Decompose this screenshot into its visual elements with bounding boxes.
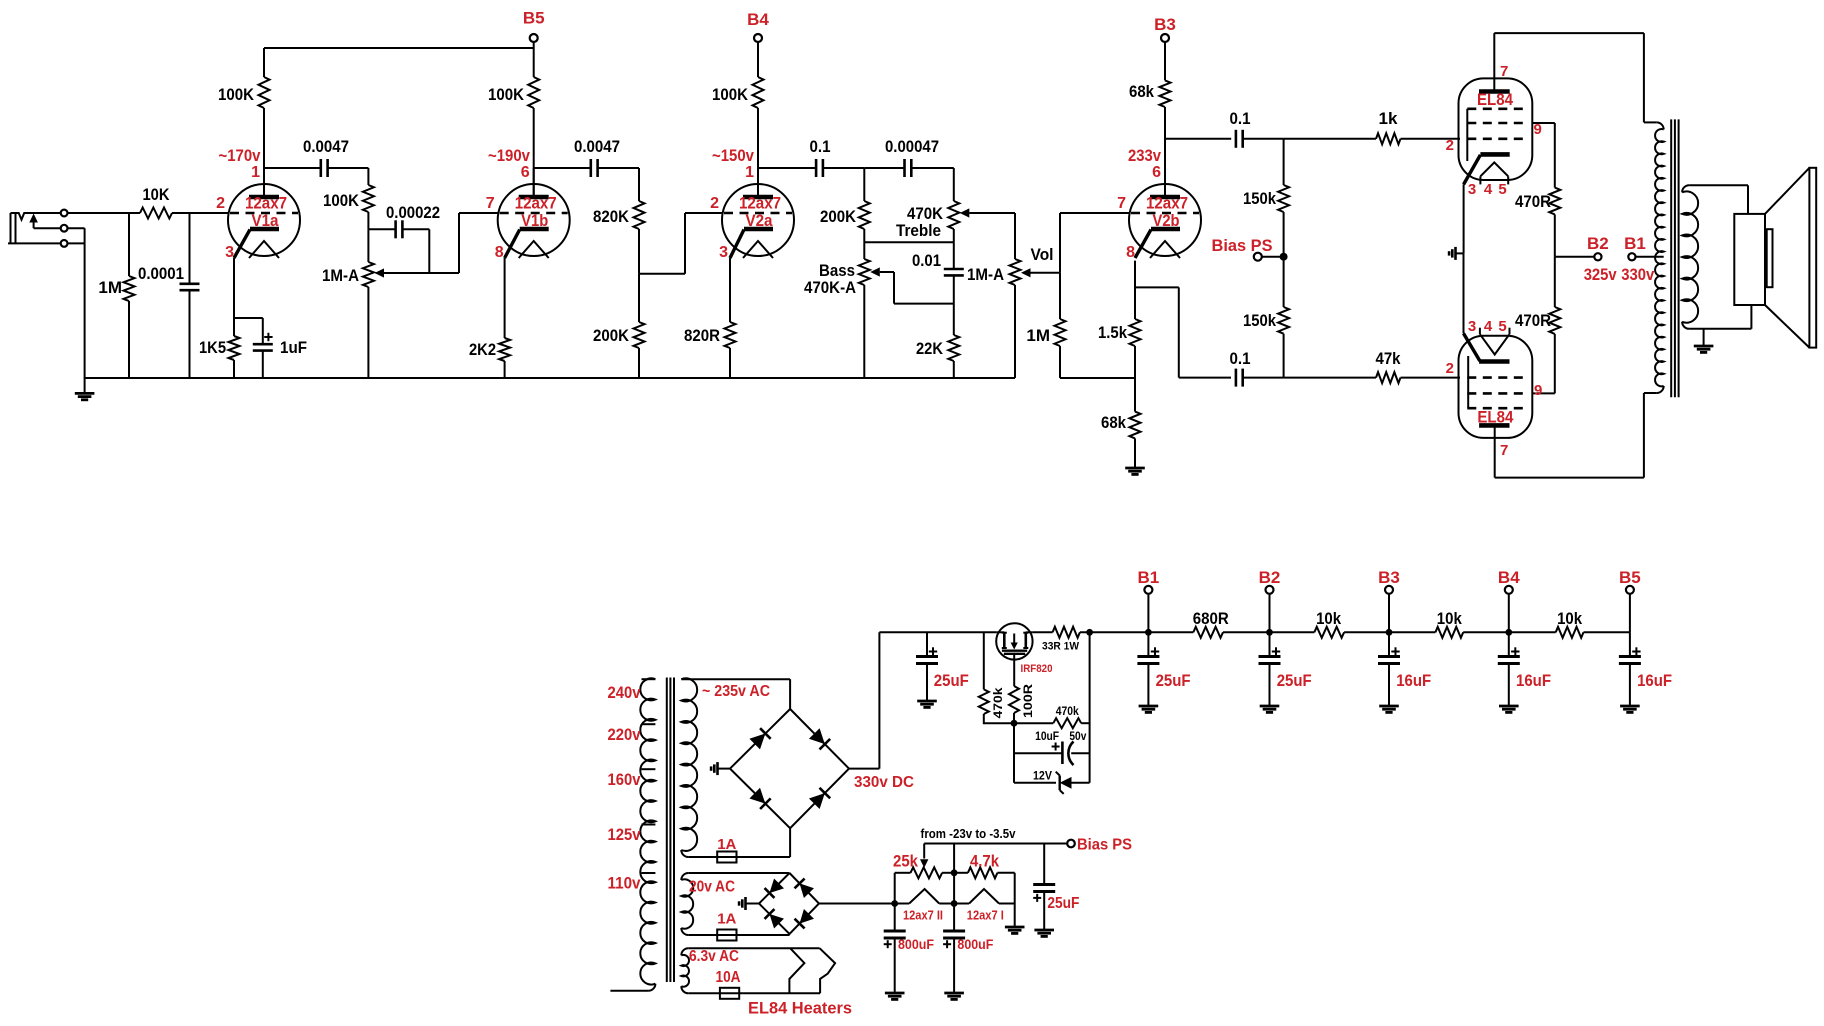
ground symbol V2b tail <box>1125 467 1145 470</box>
primary tap 160v <box>642 768 656 770</box>
resistor 4.7k bias <box>968 867 998 878</box>
svg-text:20v AC: 20v AC <box>689 879 735 896</box>
ground symbol bias bridge <box>746 903 760 905</box>
diode HT left-top <box>749 734 765 750</box>
primary tap 240v <box>642 678 656 680</box>
terminal B1 330v <box>1628 253 1635 260</box>
ground symbol 800uF left <box>885 992 905 995</box>
terminal B4 bottom <box>1505 586 1513 594</box>
junction B1 <box>1145 629 1152 636</box>
svg-text:1A: 1A <box>717 911 736 928</box>
svg-text:~ 235v AC: ~ 235v AC <box>702 683 770 700</box>
resistor 1.5k V2b cathode <box>1134 261 1136 319</box>
svg-text:22K: 22K <box>916 339 944 358</box>
potentiometer 1M-A gain <box>367 229 369 262</box>
svg-text:325v: 325v <box>1584 265 1617 284</box>
ground symbol raw cap <box>917 700 937 703</box>
svg-text:16uF: 16uF <box>1516 671 1551 690</box>
triode V1a 12ax7 <box>216 164 300 261</box>
svg-text:1M: 1M <box>1026 326 1050 345</box>
svg-text:4: 4 <box>1484 181 1493 198</box>
resistor 470R top screen <box>1554 123 1556 188</box>
terminal B4 <box>754 34 762 42</box>
bias secondary 20v AC <box>681 879 693 928</box>
svg-text:9: 9 <box>1534 382 1542 399</box>
svg-text:EL84: EL84 <box>1477 90 1513 109</box>
capacitor 16uF B3 <box>1388 632 1390 656</box>
capacitor 0.01 <box>953 242 955 269</box>
potentiometer 470K Treble <box>953 168 955 201</box>
primary tap 125v <box>642 824 656 826</box>
capacitor 25uF B1 <box>1147 632 1149 656</box>
zener 12V <box>1014 782 1056 784</box>
power transformer core <box>666 678 668 983</box>
resistor 100K interstage <box>367 168 369 185</box>
diode bias right-top <box>800 883 814 898</box>
diode bias bottom-left <box>769 914 783 928</box>
input jack J1 <box>10 213 12 243</box>
svg-text:7: 7 <box>1500 442 1508 459</box>
wire 20v top to bias bridge <box>688 872 789 874</box>
svg-text:1: 1 <box>745 164 754 181</box>
svg-text:2: 2 <box>710 195 719 212</box>
svg-text:~190v: ~190v <box>488 146 530 165</box>
svg-text:8: 8 <box>495 244 504 261</box>
svg-text:6: 6 <box>1152 164 1161 181</box>
HT secondary ~235v AC <box>681 678 697 851</box>
svg-text:12ax7: 12ax7 <box>1146 194 1188 213</box>
resistor 68k V2b tail <box>1134 378 1136 412</box>
wire bottom EL84 cathode to ground <box>1463 253 1465 333</box>
svg-text:3: 3 <box>1468 181 1476 198</box>
svg-text:2: 2 <box>1446 360 1454 377</box>
svg-text:220v: 220v <box>608 725 641 744</box>
wire secondary top to speaker <box>1689 184 1748 186</box>
junction gate node <box>1011 720 1018 727</box>
svg-text:200K: 200K <box>593 326 630 345</box>
svg-text:EL84 Heaters: EL84 Heaters <box>748 999 852 1018</box>
wire sleeve down to ground bus <box>84 243 86 378</box>
svg-text:B3: B3 <box>1378 568 1400 587</box>
svg-text:16uF: 16uF <box>1637 671 1672 690</box>
speaker <box>1734 214 1765 305</box>
svg-text:10k: 10k <box>1437 609 1462 628</box>
junction bias node <box>1280 253 1288 261</box>
heater secondary 6.3v AC <box>681 955 689 987</box>
svg-text:6.3v AC: 6.3v AC <box>689 948 739 965</box>
resistor 47k grid stopper bottom EL84 <box>1284 377 1376 379</box>
svg-text:3: 3 <box>1468 318 1476 335</box>
diode HT left-bottom <box>749 788 765 804</box>
wire jack ring to ground column <box>34 227 61 229</box>
wire top EL84 plate to OT <box>1494 32 1644 34</box>
capacitor 0.0001 input <box>189 213 191 284</box>
pentode EL84 top <box>1459 78 1533 180</box>
svg-text:50v: 50v <box>1069 731 1087 743</box>
resistor 680R <box>1148 631 1193 633</box>
svg-text:820R: 820R <box>684 326 720 345</box>
output transformer primary <box>1657 122 1664 129</box>
svg-text:330v DC: 330v DC <box>854 774 914 791</box>
fuse 1A HT <box>688 856 790 858</box>
diode bias top-left <box>769 879 783 893</box>
MOSFET IRF820 <box>996 623 1032 659</box>
jack ring contact <box>61 225 68 232</box>
wire mosfet to 33R <box>1033 631 1053 633</box>
svg-text:470k: 470k <box>991 687 1005 718</box>
svg-text:470k: 470k <box>1056 706 1080 718</box>
power transformer primary <box>640 678 655 984</box>
svg-text:1k: 1k <box>1379 109 1398 128</box>
terminal B1 bottom <box>1144 586 1152 594</box>
resistor 820K <box>638 168 640 201</box>
svg-text:0.1: 0.1 <box>1230 109 1251 128</box>
wire 200K to treble bottom <box>864 241 954 243</box>
ground symbol bias right <box>1005 926 1025 929</box>
wire top EL84 cathode to ground <box>1463 184 1465 253</box>
svg-text:B1: B1 <box>1624 234 1646 253</box>
svg-text:V2b: V2b <box>1153 211 1180 230</box>
svg-text:1.5k: 1.5k <box>1098 323 1127 342</box>
bass wiper arrow <box>870 267 880 276</box>
svg-text:110v: 110v <box>608 874 641 893</box>
svg-text:0.1: 0.1 <box>810 137 831 156</box>
svg-text:10k: 10k <box>1557 609 1582 628</box>
primary tap 220v <box>642 723 656 725</box>
svg-text:7: 7 <box>486 195 495 212</box>
svg-text:B3: B3 <box>1154 15 1176 34</box>
capacitor 10uF 50v gate <box>1013 723 1015 783</box>
svg-text:820K: 820K <box>593 207 630 226</box>
svg-text:12ax7 II: 12ax7 II <box>903 909 943 923</box>
junction bias raw mid <box>951 900 958 907</box>
svg-text:25uF: 25uF <box>1277 671 1312 690</box>
svg-text:7: 7 <box>1117 195 1126 212</box>
capacitor 25uF raw <box>926 632 928 656</box>
1M-A wiper arrow <box>375 268 385 277</box>
capacitor 16uF B4 <box>1508 632 1510 656</box>
resistor 2K2 V1b cathode <box>504 258 506 338</box>
triode V2b 12ax7 <box>1117 164 1201 261</box>
svg-text:0.0047: 0.0047 <box>574 137 620 156</box>
diode HT bottom-right <box>809 793 825 809</box>
fuse 10A heater <box>688 992 820 994</box>
resistor 10k B3-B4 <box>1389 631 1435 633</box>
svg-text:10uF: 10uF <box>1035 731 1059 743</box>
wire to V2a grid <box>639 273 685 275</box>
svg-text:12ax7: 12ax7 <box>245 194 287 213</box>
svg-text:125v: 125v <box>608 825 641 844</box>
resistor 10K grid stopper <box>140 208 172 219</box>
heater 12ax7 II <box>895 903 910 905</box>
svg-text:25uF: 25uF <box>1047 895 1079 912</box>
svg-text:68k: 68k <box>1101 413 1126 432</box>
svg-text:4.7k: 4.7k <box>970 852 999 871</box>
svg-text:100R: 100R <box>1021 684 1035 718</box>
jack tip contact <box>61 210 68 217</box>
junction bias raw left <box>891 900 898 907</box>
B5 supply bus wire <box>264 47 534 49</box>
terminal B3 bottom <box>1385 586 1393 594</box>
junction 25k/4.7k <box>951 869 958 876</box>
svg-text:1: 1 <box>251 164 260 181</box>
capacitor 800uF left <box>894 904 896 932</box>
25k wiper arrow <box>923 844 925 859</box>
ground symbol EL84 cathodes <box>1456 252 1464 254</box>
wire jack tip to grid <box>68 212 140 214</box>
svg-text:233v: 233v <box>1128 146 1161 165</box>
svg-text:Treble: Treble <box>896 221 941 240</box>
wire bass wiper to 0.01 <box>893 272 895 304</box>
EL84 heaters connector arrow <box>789 948 804 993</box>
svg-text:160v: 160v <box>608 770 641 789</box>
capacitor 25uF B2 <box>1269 632 1271 656</box>
wire HT secondary bottom to bridge <box>789 828 791 857</box>
wire jack sleeve <box>8 242 60 244</box>
svg-text:Bias PS: Bias PS <box>1212 236 1273 255</box>
svg-text:0.1: 0.1 <box>1230 349 1251 368</box>
resistor 200K tone slope <box>863 168 865 201</box>
capacitor 0.1 coupling <box>758 167 816 169</box>
svg-text:B2: B2 <box>1587 234 1609 253</box>
svg-text:25uF: 25uF <box>934 671 969 690</box>
wire 4.7k right to ground <box>1014 873 1016 904</box>
resistor 200K divider <box>638 274 640 322</box>
svg-text:800uF: 800uF <box>957 936 993 952</box>
svg-text:12V: 12V <box>1033 769 1052 783</box>
resistor 470R bottom screen <box>1554 334 1556 394</box>
svg-text:470K-A: 470K-A <box>804 278 856 297</box>
wire wiper to V1b grid <box>458 213 460 273</box>
wire bottom EL84 plate to OT <box>1495 477 1644 479</box>
capacitor 25uF bias <box>1043 844 1045 885</box>
wire cathode branch to 0.1 <box>1135 286 1179 288</box>
svg-text:3: 3 <box>719 244 728 261</box>
svg-text:10K: 10K <box>143 185 171 204</box>
capacitor 800uF right <box>953 904 955 932</box>
ground symbol bias cap <box>1034 929 1054 932</box>
svg-text:2: 2 <box>216 195 225 212</box>
svg-text:680R: 680R <box>1193 609 1229 628</box>
potentiometer 1M-A volume <box>1014 213 1016 259</box>
svg-text:2K2: 2K2 <box>469 340 496 359</box>
svg-text:0.0001: 0.0001 <box>138 264 184 283</box>
capacitor 1uF cathode bypass <box>234 317 263 319</box>
wire 6.3v top lead <box>688 947 819 949</box>
svg-text:240v: 240v <box>608 683 641 702</box>
terminal B5 bottom <box>1626 586 1634 594</box>
svg-text:~150v: ~150v <box>712 146 754 165</box>
svg-text:0.00022: 0.00022 <box>386 203 440 222</box>
terminal B5 <box>533 42 535 48</box>
bias wiper output row <box>924 843 1066 845</box>
resistor 100R gate stopper <box>1013 655 1015 686</box>
transformer core <box>1670 119 1672 397</box>
svg-text:6: 6 <box>521 164 530 181</box>
svg-text:330v: 330v <box>1621 265 1654 284</box>
ground symbol speaker return <box>1703 329 1705 346</box>
svg-text:47k: 47k <box>1376 349 1401 368</box>
svg-text:16uF: 16uF <box>1396 671 1431 690</box>
resistor 100K V2a plate <box>757 42 759 77</box>
svg-text:1M-A: 1M-A <box>967 265 1004 284</box>
svg-text:100K: 100K <box>488 85 525 104</box>
resistor 1K5 V1a cathode <box>233 258 235 318</box>
svg-text:8: 8 <box>1126 244 1135 261</box>
svg-text:1M: 1M <box>98 278 122 297</box>
svg-text:150k: 150k <box>1243 189 1276 208</box>
svg-text:470R: 470R <box>1515 311 1551 330</box>
resistor 10k B2-B3 <box>1270 631 1315 633</box>
wire output column <box>1089 632 1091 783</box>
ground symbol 800uF right <box>944 992 964 995</box>
resistor 1k grid stopper top EL84 <box>1284 138 1376 140</box>
resistor 33R 1W <box>1053 627 1080 638</box>
svg-text:10A: 10A <box>716 969 741 986</box>
svg-text:2: 2 <box>1446 137 1454 154</box>
svg-text:B4: B4 <box>1498 568 1520 587</box>
svg-text:100K: 100K <box>323 191 360 210</box>
resistor 150k lower bias feed <box>1283 257 1285 307</box>
resistor 1M input load <box>128 213 130 276</box>
heater 12ax7 I <box>954 903 969 905</box>
svg-text:from -23v to -3.5v: from -23v to -3.5v <box>921 826 1017 841</box>
triode V2a 12ax7 <box>710 164 794 261</box>
potentiometer 470K-A Bass <box>863 242 865 259</box>
pentode EL84 bottom <box>1459 336 1533 438</box>
treble wiper arrow <box>960 208 970 217</box>
svg-text:9: 9 <box>1534 121 1542 138</box>
svg-text:4: 4 <box>1484 318 1493 335</box>
svg-text:200K: 200K <box>820 207 857 226</box>
svg-text:Bias PS: Bias PS <box>1077 837 1132 854</box>
capacitor 0.0047 coupling 1 <box>264 167 321 169</box>
resistor 470k gate feed <box>983 632 985 689</box>
terminal B2 325v <box>1555 256 1594 258</box>
wire bridge output to rail <box>849 768 879 770</box>
svg-text:1A: 1A <box>717 836 736 853</box>
ground bus <box>85 377 1015 379</box>
svg-text:B1: B1 <box>1138 568 1160 587</box>
terminal Bias PS top <box>1254 253 1262 261</box>
svg-text:1uF: 1uF <box>280 338 307 357</box>
svg-text:V1a: V1a <box>252 211 279 230</box>
svg-text:1M-A: 1M-A <box>322 266 359 285</box>
resistor 150k upper bias feed <box>1283 139 1285 185</box>
svg-text:12ax7 I: 12ax7 I <box>967 909 1004 923</box>
svg-text:V2a: V2a <box>746 211 773 230</box>
capacitor 0.00022 bright <box>368 228 395 230</box>
junction regulator output <box>1080 631 1149 633</box>
svg-text:0.01: 0.01 <box>912 251 941 270</box>
wire bias bridge output <box>819 903 895 905</box>
volume wiper arrow <box>1021 268 1031 277</box>
resistor 470k gate bleed <box>1053 718 1081 728</box>
svg-text:800uF: 800uF <box>898 936 934 952</box>
resistor 1M V2b grid leak <box>1059 273 1061 319</box>
svg-text:B2: B2 <box>1259 568 1281 587</box>
svg-text:100K: 100K <box>218 85 255 104</box>
resistor 10k B4-B5 <box>1509 631 1556 633</box>
triode V1b 12ax7 <box>486 164 570 261</box>
svg-text:10k: 10k <box>1316 609 1341 628</box>
svg-text:470R: 470R <box>1515 192 1551 211</box>
primary tap 110v <box>642 872 656 874</box>
capacitor 0.1 to bottom EL84 <box>1235 369 1238 387</box>
svg-text:12ax7: 12ax7 <box>515 194 557 213</box>
terminal B2 bottom <box>1266 586 1274 594</box>
wire bias mid column <box>953 844 955 873</box>
svg-text:IRF820: IRF820 <box>1021 663 1053 675</box>
bias bridge diamond <box>759 873 819 934</box>
svg-text:68k: 68k <box>1129 82 1154 101</box>
wire V2b plate to 0.1 <box>1165 138 1231 140</box>
wire raw rail <box>879 631 996 633</box>
wire HT secondary top to bridge <box>681 678 790 680</box>
resistor 68k V2b plate <box>1164 42 1166 80</box>
capacitor 0.1 to top EL84 <box>1235 130 1238 148</box>
wire volume to V2b grid <box>1059 213 1061 273</box>
svg-text:0.0047: 0.0047 <box>303 137 349 156</box>
svg-text:3: 3 <box>225 244 234 261</box>
svg-text:B5: B5 <box>1619 568 1641 587</box>
output transformer secondary <box>1682 185 1689 192</box>
svg-text:Vol: Vol <box>1031 245 1054 264</box>
terminal B3 <box>1161 34 1169 42</box>
svg-text:V1b: V1b <box>521 211 548 230</box>
svg-text:5: 5 <box>1498 318 1506 335</box>
ground symbol HT bridge <box>718 768 731 770</box>
resistor 100K V1b plate <box>528 77 539 108</box>
resistor 100K V1a plate <box>263 48 265 77</box>
diode HT top-right <box>809 728 825 744</box>
capacitor 0.00047 treble <box>864 167 904 169</box>
resistor 820R V2a cathode <box>729 258 731 322</box>
diode bias right-bottom <box>800 909 814 924</box>
svg-text:5: 5 <box>1498 181 1506 198</box>
resistor 22K <box>953 304 955 335</box>
ground symbol main <box>84 378 86 393</box>
jack sleeve contact <box>61 240 68 247</box>
bridge rectifier HT diamond <box>730 709 849 828</box>
wire secondary bottom to speaker <box>1689 328 1751 330</box>
svg-text:12ax7: 12ax7 <box>739 194 781 213</box>
svg-text:25uF: 25uF <box>1156 671 1191 690</box>
capacitor 0.0047 coupling 2 <box>534 167 591 169</box>
svg-text:100K: 100K <box>712 85 749 104</box>
capacitor 16uF B5 <box>1629 632 1631 656</box>
svg-text:EL84: EL84 <box>1477 408 1513 427</box>
svg-text:33R 1W: 33R 1W <box>1042 641 1080 653</box>
wire 1M to 1.5k bottom <box>1060 377 1135 379</box>
svg-text:7: 7 <box>1500 63 1508 80</box>
potentiometer 25k bias <box>894 873 896 904</box>
svg-text:B4: B4 <box>747 10 769 29</box>
svg-text:1K5: 1K5 <box>199 338 226 357</box>
svg-text:0.00047: 0.00047 <box>885 137 939 156</box>
svg-text:~170v: ~170v <box>219 146 261 165</box>
terminal Bias PS bottom <box>1067 840 1075 848</box>
svg-text:25k: 25k <box>893 852 918 871</box>
svg-text:150k: 150k <box>1243 311 1276 330</box>
fuse 1A bias <box>688 934 789 936</box>
svg-text:B5: B5 <box>523 9 545 28</box>
